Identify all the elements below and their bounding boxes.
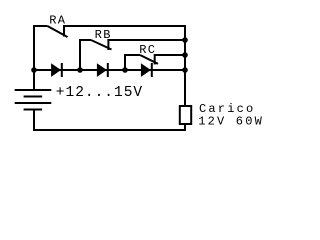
junction dot RC tap [122,67,128,73]
wire: RB left lead [79,39,91,41]
diode D3 cathode bar [151,63,153,77]
wire: load bottom lead [184,124,186,131]
battery B1 plate 1 long (+) [15,89,52,91]
wire: right vertical rail [184,25,186,106]
switch RA blade [47,26,67,37]
wire: RC rail to right rail [155,54,186,56]
switch RB blade [91,40,112,50]
junction dot RC rail [182,52,188,58]
junction dot RB tap [77,67,83,73]
switch RC contact tick [154,54,156,65]
battery B1 plate 3 long [15,102,52,104]
wire: battery minus stub down [33,110,35,132]
junction dot left vertical x diode row [31,67,37,73]
wire: top rail from RA to right rail [64,25,186,27]
wire: RC tap vertical [124,55,126,70]
wire: left vertical rail (battery + up to RA) [33,26,35,90]
diode D2 triangle [97,63,107,77]
diode D2 cathode bar [107,63,109,77]
svg-text:RC: RC [139,43,156,57]
wire: RC left lead [124,54,140,56]
diode D1 cathode bar [61,63,63,77]
wire: diode row [34,69,186,71]
wire: RB rail to right rail [108,39,186,41]
load resistor rectangle (Carico) [180,106,191,124]
svg-text:RA: RA [49,13,66,27]
switch RC blade [140,55,158,64]
svg-text:12V 60W: 12V 60W [198,115,264,129]
battery B1 plate 2 short [24,96,42,98]
diode D1 triangle [51,63,61,77]
wire: RB tap vertical [79,40,81,70]
battery B1 plate 4 short (-) [24,109,42,111]
junction dot diode row x right rail [182,67,188,73]
wire: RA left lead [33,25,47,27]
wire: bottom return wire [33,129,186,131]
switch RA contact tick [63,25,65,37]
svg-text:+12...15V: +12...15V [56,85,143,101]
diode D3 triangle [141,63,151,77]
switch RB contact tick [107,39,109,50]
junction dot RB rail [182,37,188,43]
